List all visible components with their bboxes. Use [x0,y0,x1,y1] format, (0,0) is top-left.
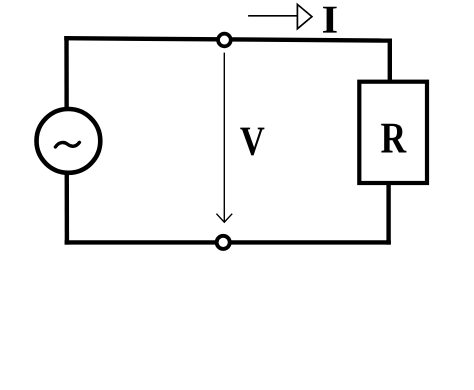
AC source V1 [37,109,101,173]
resistor R [359,82,427,183]
wire (bottom, node B to bottom-right corner) [65,240,391,244]
label R [381,124,406,153]
node A (top terminal) [218,34,231,47]
label V [240,128,264,156]
label I [323,7,337,33]
voltage arrow V (node A to node B) [216,53,232,223]
wire (top, node A to top-right corner) [64,38,392,40]
wire (left vertical) [64,36,69,244]
node B (bottom terminal) [217,236,230,249]
wire (right vertical, top stub to resistor) [388,39,392,85]
current arrow I [248,4,312,28]
wire (right vertical, resistor bottom stub) [386,180,390,245]
